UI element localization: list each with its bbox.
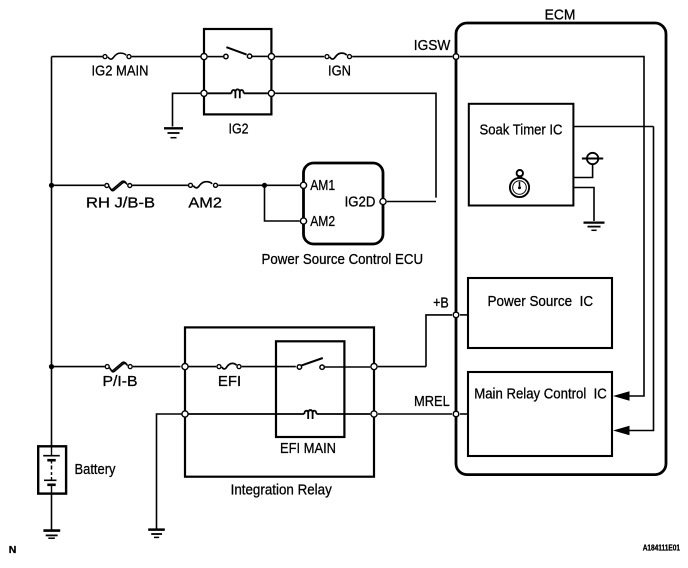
ground: battery negative — [43, 531, 60, 539]
wire: integration relay switch out to +B branch — [378, 366, 426, 368]
wire: MREL pin into Main Relay Control IC — [460, 413, 468, 415]
Main Relay Control IC (box) — [468, 372, 612, 456]
relay EFI MAIN (box) — [276, 341, 344, 437]
svg-text:RH J/B-B: RH J/B-B — [86, 196, 155, 212]
icon: soak timer stopwatch — [510, 170, 529, 197]
svg-text:Power Source IC: Power Source IC — [488, 294, 594, 310]
svg-text:IG2D: IG2D — [345, 194, 376, 210]
pin: IG2 relay right switch pin — [268, 54, 274, 60]
wire: IGSW internal route to Main Relay Control IC — [460, 57, 644, 396]
pin: IG2 relay left coil pin — [201, 90, 207, 96]
svg-text:AM2: AM2 — [188, 196, 222, 212]
Power Source Control ECU (box) — [304, 163, 384, 244]
Power Source IC (box) — [468, 278, 612, 348]
Soak Timer IC (box) — [469, 104, 574, 206]
pin: integration relay left switch pin — [182, 364, 188, 370]
wire: row2 bus to RH J/B-B — [52, 184, 105, 186]
coil of EFI MAIN relay — [188, 410, 370, 419]
pin: IGSW on ECM — [453, 54, 459, 60]
fusible link RH J/B-B — [105, 181, 132, 191]
pin: integration relay right coil pin — [371, 411, 377, 417]
wire: integration relay coil to ground — [157, 414, 182, 529]
pin: AM1 — [300, 182, 306, 188]
pin: IG2 relay left switch pin — [201, 54, 207, 60]
arrowhead into Main Relay Control IC (from IGSW) — [613, 391, 630, 401]
svg-text:IGN: IGN — [328, 64, 351, 80]
svg-text:Soak Timer IC: Soak Timer IC — [480, 122, 563, 138]
switch contacts inside IG2 relay — [208, 47, 268, 59]
svg-text:EFI MAIN: EFI MAIN — [280, 441, 336, 457]
wire: branch junction down to AM2 pin — [265, 185, 300, 221]
svg-text:P/I-B: P/I-B — [103, 374, 138, 390]
wire: battery to ground segment — [51, 494, 53, 530]
svg-text:AM1: AM1 — [310, 178, 335, 194]
svg-text:AM2: AM2 — [310, 214, 335, 230]
svg-text:ECM: ECM — [545, 7, 576, 23]
wire: right riser to Main Relay Control IC — [630, 127, 654, 431]
wire: P/I-B to integration relay — [133, 366, 181, 368]
coil of IG2 relay — [208, 89, 268, 98]
svg-text:N: N — [9, 544, 17, 556]
svg-text:+B: +B — [433, 296, 449, 312]
svg-text:IG2 MAIN: IG2 MAIN — [92, 64, 149, 80]
battery plates symbol — [43, 446, 60, 494]
pin: integration relay left coil pin — [182, 411, 188, 417]
svg-text:Power Source Control ECU: Power Source Control ECU — [262, 252, 424, 268]
terminal circle symbol — [582, 153, 603, 164]
wire: IG2 coil to ground — [173, 93, 201, 126]
node: junction dot row2 on battery bus — [49, 183, 54, 188]
wire: IGN fuse to IGSW pin — [352, 56, 452, 58]
fuse IGN — [325, 53, 352, 59]
pin: IG2 relay right coil pin — [268, 90, 274, 96]
wire: RH J/B-B to AM2 fuse — [133, 184, 188, 186]
Integration Relay (box) — [185, 327, 374, 476]
wire: Soak Timer IC output to right riser — [573, 126, 653, 128]
wire: top row, bus to IG2 MAIN fuse — [52, 56, 103, 58]
pin: AM2 — [300, 218, 306, 224]
fuse IG2 MAIN — [103, 53, 131, 59]
ground: integration relay coil — [148, 530, 165, 538]
wire: IG2 MAIN fuse to IG2 relay — [132, 56, 201, 58]
relay IG2 (box) — [204, 29, 271, 114]
wire: coil row from IG2 relay to IG2D riser — [275, 93, 436, 197]
battery B1 (box) — [38, 446, 66, 493]
svg-text:MREL: MREL — [414, 394, 450, 410]
svg-text:Battery: Battery — [75, 462, 117, 478]
ECM (box) — [456, 23, 666, 475]
wire: +B branch from EFI relay output — [426, 315, 452, 367]
wire: Soak Timer IC to terminal circle — [573, 164, 592, 177]
wire: Soak Timer IC to ground stub — [573, 188, 594, 222]
wire: AM2 fuse to AM1 pin — [218, 184, 300, 186]
ground: below IG2 relay — [164, 128, 183, 137]
wire: relay pin to EFI fuse — [188, 366, 216, 368]
wire: battery bus vertical (left) — [51, 57, 53, 446]
svg-text:IGSW: IGSW — [414, 38, 451, 54]
wire: row3 bus to P/I-B — [52, 366, 105, 368]
node: junction dot row3 on battery bus — [49, 364, 54, 369]
svg-text:A184111E01: A184111E01 — [643, 544, 681, 553]
pin: integration relay right switch pin — [371, 364, 377, 370]
pin: MREL on ECM — [453, 411, 459, 417]
pin: +B on ECM — [453, 312, 459, 318]
wire: EFI fuse to EFI MAIN switch — [242, 366, 296, 368]
svg-text:EFI: EFI — [218, 374, 241, 390]
wire: IG2D to riser — [387, 201, 436, 203]
node: junction dot before AM1 — [262, 183, 267, 188]
fusible link P/I-B — [105, 362, 132, 372]
wire: +B pin into Power Source IC — [460, 314, 468, 316]
wire: IG2 relay to IGN fuse — [275, 56, 324, 58]
ground: soak timer — [584, 223, 605, 231]
pin: IG2D — [380, 198, 386, 204]
fuse EFI — [217, 363, 241, 369]
fuse AM2 — [189, 182, 218, 188]
wire: MREL from integration relay — [378, 413, 452, 415]
svg-text:Integration Relay: Integration Relay — [231, 483, 333, 499]
svg-text:Main Relay Control IC: Main Relay Control IC — [474, 386, 607, 402]
switch contacts inside EFI MAIN — [297, 358, 370, 369]
svg-text:IG2: IG2 — [229, 122, 249, 138]
arrowhead into Main Relay Control IC (from Soak Timer) — [613, 426, 630, 436]
